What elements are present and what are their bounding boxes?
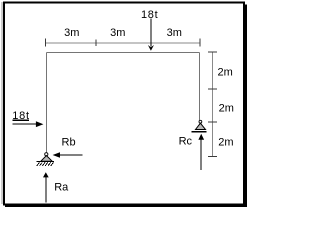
svg-text:3m: 3m	[110, 27, 125, 39]
svg-text:Rc: Rc	[179, 136, 193, 148]
load arrow 18t top shaft	[150, 19, 152, 47]
pin support ground line at A	[37, 160, 55, 162]
frame right column	[199, 52, 201, 120]
reaction arrow Rc head	[198, 134, 204, 140]
load arrow 18t left shaft	[13, 123, 39, 125]
roller support circle at C	[199, 120, 202, 123]
roller support triangle at C	[196, 123, 206, 129]
top dimension tick left end	[45, 39, 47, 47]
border shadow bottom	[5, 205, 247, 207]
right dimension tick at 4m	[208, 121, 217, 123]
reaction arrow Rb head	[53, 152, 60, 157]
svg-text:2m: 2m	[219, 102, 234, 114]
pin support circle at A	[45, 153, 48, 156]
top dimension tick right end	[199, 39, 201, 47]
svg-text:3m: 3m	[167, 27, 182, 39]
right dimension tick top end	[208, 51, 217, 53]
right dimension line	[212, 52, 214, 157]
right dimension tick bottom end	[208, 156, 217, 158]
right dimension tick at 2m	[208, 88, 217, 90]
svg-text:2m: 2m	[218, 66, 233, 78]
frame top beam	[47, 51, 200, 53]
top dimension tick at 3m	[95, 39, 97, 46]
load arrow 18t left head	[36, 121, 44, 127]
reaction arrow Rc shaft	[200, 139, 202, 170]
reaction arrow Ra head	[43, 172, 49, 177]
top dimension line	[46, 42, 201, 44]
frame left column	[46, 52, 48, 152]
border inner edge left	[1, 2, 3, 204]
underline of 18t left label	[12, 119, 29, 121]
border shadow right	[245, 5, 247, 207]
roller support ground line at C	[192, 131, 207, 133]
svg-text:3m: 3m	[64, 27, 79, 39]
outer border frame	[4, 3, 244, 205]
svg-text:2m: 2m	[218, 137, 233, 149]
svg-text:Rb: Rb	[62, 136, 76, 148]
reaction arrow Ra shaft	[45, 177, 47, 203]
pin support triangle at A	[41, 156, 52, 162]
load arrow 18t top head	[148, 45, 154, 51]
reaction arrow Rb shaft	[60, 154, 83, 156]
svg-text:Ra: Ra	[54, 181, 69, 193]
svg-text:18t: 18t	[141, 9, 158, 21]
pin support ground hatching at A	[37, 162, 54, 166]
